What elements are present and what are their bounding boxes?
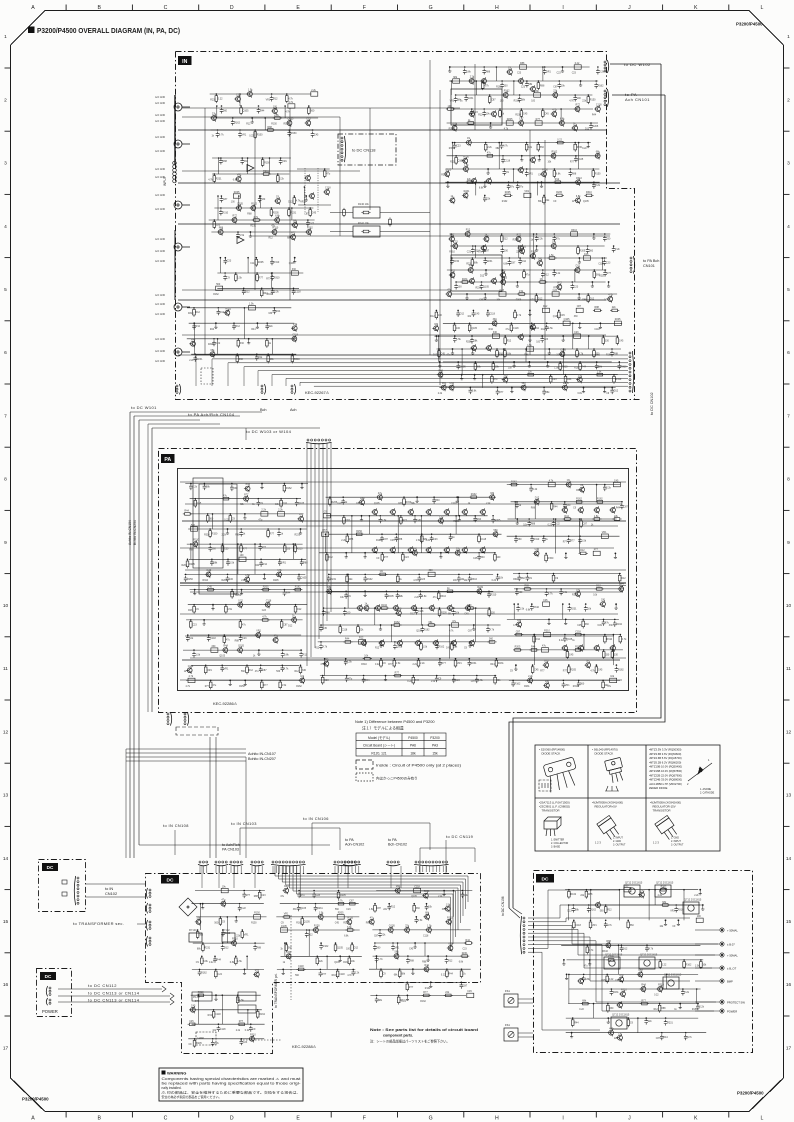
resistor — [356, 533, 362, 536]
capacitor — [297, 892, 301, 898]
resistor — [576, 351, 579, 357]
resistor — [223, 637, 226, 643]
PA block outline — [159, 449, 637, 713]
capacitor — [645, 946, 649, 952]
svg-text:0.22: 0.22 — [492, 580, 497, 582]
svg-text:6.8k: 6.8k — [576, 195, 581, 198]
svg-text:100: 100 — [458, 286, 463, 289]
transistor — [531, 325, 536, 330]
svg-text:R88: R88 — [235, 641, 240, 643]
svg-text:1 2 3: 1 2 3 — [595, 841, 601, 845]
svg-text:4.7k: 4.7k — [549, 479, 554, 482]
svg-text:R162: R162 — [323, 945, 329, 948]
resistor — [564, 376, 567, 382]
svg-text:R44: R44 — [260, 110, 265, 113]
svg-text:560: 560 — [540, 146, 545, 149]
resistor — [587, 97, 590, 103]
svg-text:330: 330 — [481, 556, 486, 559]
transistor — [412, 606, 417, 611]
transistor — [503, 377, 508, 382]
svg-text:3. BASE: 3. BASE — [551, 846, 560, 849]
svg-text:R231: R231 — [197, 358, 203, 361]
resistor — [571, 1020, 574, 1026]
svg-text:15: 15 — [786, 919, 792, 925]
svg-text:6.8k: 6.8k — [284, 654, 289, 657]
resistor — [594, 518, 600, 521]
circuitry cluster (276,884)-(362,976) — [280, 903, 359, 905]
svg-text:R162: R162 — [511, 480, 517, 483]
resistor — [471, 260, 474, 266]
svg-text:to PA: to PA — [345, 838, 354, 842]
resistor — [209, 531, 212, 537]
bundle from bottom connector to left — [196, 354, 628, 356]
svg-text:R120, 121: R120, 121 — [371, 751, 386, 755]
resistor — [663, 904, 669, 907]
svg-text:R150: R150 — [264, 162, 270, 165]
capacitor — [239, 636, 243, 642]
svg-text:R310: R310 — [513, 240, 519, 242]
transistor — [641, 987, 646, 992]
svg-text:DC: DC — [542, 877, 549, 883]
capacitor — [415, 917, 419, 923]
component box — [624, 888, 631, 892]
resistor — [496, 351, 499, 357]
svg-text:R150: R150 — [542, 169, 548, 172]
svg-text:R12: R12 — [273, 98, 278, 101]
svg-text:IN: IN — [182, 59, 187, 65]
svg-text:R44: R44 — [531, 646, 536, 649]
transistor — [306, 176, 311, 181]
resistor — [614, 518, 620, 521]
transistor — [273, 638, 278, 643]
svg-text:Q105: Q105 — [219, 656, 225, 658]
resistor — [237, 340, 240, 346]
svg-text:VR1: VR1 — [237, 174, 242, 177]
capacitor — [516, 606, 520, 612]
wire — [544, 140, 546, 360]
transistor — [394, 954, 399, 959]
transistor — [425, 914, 430, 919]
svg-text:10: 10 — [786, 603, 792, 609]
resistor — [514, 312, 517, 318]
svg-text:C87: C87 — [384, 538, 389, 541]
svg-text:C87: C87 — [623, 505, 628, 508]
resistor — [347, 929, 353, 932]
svg-text:VR1: VR1 — [281, 561, 286, 564]
transistor — [293, 223, 298, 228]
transistor — [482, 79, 487, 84]
transistor — [608, 297, 613, 302]
component box — [428, 572, 435, 576]
capacitor — [482, 248, 486, 254]
svg-text:560: 560 — [580, 682, 585, 685]
svg-text:R44: R44 — [574, 1022, 579, 1025]
svg-text:4.7k: 4.7k — [253, 216, 258, 219]
svg-text:Ach GND: Ach GND — [155, 102, 165, 105]
svg-text:12: 12 — [786, 729, 792, 735]
svg-text:47u: 47u — [510, 186, 515, 189]
svg-text:L: L — [761, 5, 764, 11]
connector — [415, 861, 417, 863]
resistor — [627, 922, 630, 928]
capacitor — [604, 922, 608, 928]
component box — [216, 286, 223, 290]
svg-text:D12: D12 — [623, 947, 628, 950]
svg-text:C45: C45 — [577, 625, 582, 627]
svg-text:R162: R162 — [295, 585, 301, 588]
capacitor — [217, 309, 221, 315]
svg-text:560: 560 — [494, 529, 499, 532]
svg-text:330: 330 — [614, 653, 619, 656]
svg-text:R310: R310 — [586, 191, 592, 194]
resistor — [403, 499, 406, 505]
svg-text:2.2k: 2.2k — [420, 662, 425, 665]
svg-text:R88: R88 — [267, 126, 272, 129]
svg-text:PA3: PA3 — [432, 744, 438, 748]
circuitry cluster (208,150)-(292,182) — [212, 157, 291, 159]
svg-text:R162: R162 — [225, 307, 231, 310]
svg-text:D12: D12 — [430, 316, 435, 318]
resistor — [283, 546, 286, 552]
connector — [261, 385, 263, 387]
svg-text:560: 560 — [223, 110, 228, 113]
svg-text:47u: 47u — [370, 916, 375, 919]
svg-text:Ach GND: Ach GND — [155, 96, 165, 99]
transistor — [619, 587, 624, 592]
resistor — [582, 621, 585, 627]
component box — [414, 888, 421, 892]
transistor — [395, 888, 400, 893]
resistor — [460, 971, 463, 977]
svg-text:C45: C45 — [335, 922, 340, 924]
svg-text:R231: R231 — [498, 662, 504, 665]
svg-text:C118: C118 — [188, 665, 194, 668]
transistor — [286, 954, 291, 959]
svg-text:R12: R12 — [654, 1009, 659, 1011]
svg-text:330: 330 — [490, 492, 495, 495]
resistor — [565, 518, 571, 521]
svg-text:Q105: Q105 — [583, 201, 589, 203]
resistor — [294, 606, 297, 612]
svg-text:G: G — [429, 5, 433, 11]
transistor — [306, 121, 311, 126]
circuitry cluster (430,304)-(626,394) — [443, 322, 622, 324]
svg-text:VR1: VR1 — [284, 913, 289, 916]
svg-text:47u: 47u — [452, 620, 457, 623]
capacitor — [253, 945, 257, 951]
svg-text:2.2k: 2.2k — [274, 290, 279, 293]
component box — [527, 347, 534, 351]
svg-text:R162: R162 — [213, 294, 219, 296]
transistor — [360, 500, 365, 505]
resistor — [454, 660, 457, 666]
capacitor — [257, 500, 261, 506]
component box — [239, 557, 246, 561]
svg-text:R205: R205 — [182, 565, 188, 567]
svg-text:R44: R44 — [223, 645, 228, 648]
svg-text:Achito IN-CN104: Achito IN-CN104 — [128, 520, 132, 545]
transistor — [595, 646, 600, 651]
svg-text:1.5k: 1.5k — [464, 164, 469, 167]
capacitor — [530, 537, 534, 543]
capacitor — [511, 681, 515, 687]
svg-text:VR1: VR1 — [396, 885, 401, 888]
svg-text:0.22: 0.22 — [209, 962, 214, 964]
resistor — [487, 155, 493, 158]
capacitor — [660, 1034, 664, 1040]
svg-text:R44: R44 — [553, 505, 558, 508]
svg-text:R12: R12 — [607, 909, 612, 912]
svg-text:POWER: POWER — [727, 1009, 737, 1013]
capacitor — [198, 970, 202, 976]
svg-text:R77: R77 — [291, 232, 296, 235]
svg-text:C23: C23 — [346, 909, 351, 911]
resistor — [558, 312, 561, 318]
svg-text:1.5k: 1.5k — [347, 661, 352, 664]
transistor — [277, 572, 282, 577]
svg-text:R162: R162 — [332, 975, 338, 977]
svg-text:to TRANSFORMER sec.: to TRANSFORMER sec. — [73, 921, 124, 926]
capacitor — [664, 1020, 668, 1026]
svg-text:330: 330 — [286, 548, 291, 551]
svg-text:C45: C45 — [569, 653, 574, 656]
svg-text:VR1: VR1 — [442, 382, 447, 385]
svg-text:1.5k: 1.5k — [230, 561, 235, 564]
resistor — [424, 994, 430, 997]
wire — [254, 130, 256, 290]
capacitor — [363, 576, 367, 582]
svg-text:R205: R205 — [338, 912, 344, 915]
resistor — [190, 622, 193, 628]
svg-text:6.8k: 6.8k — [203, 960, 208, 963]
transistor — [250, 1036, 255, 1041]
svg-text:R12: R12 — [507, 340, 512, 343]
resistor — [495, 660, 498, 666]
svg-text:2.2k: 2.2k — [192, 486, 197, 489]
svg-text:100: 100 — [240, 554, 245, 557]
capacitor — [696, 1004, 700, 1010]
transistor — [519, 79, 524, 84]
svg-text:2.2k: 2.2k — [214, 1042, 219, 1045]
resistor — [516, 633, 522, 636]
svg-text:C23: C23 — [557, 73, 562, 75]
svg-text:R88: R88 — [595, 306, 600, 309]
svg-text:47u: 47u — [526, 274, 531, 277]
transistor — [292, 618, 297, 623]
capacitor — [545, 590, 549, 596]
capacitor — [507, 184, 511, 190]
svg-text:Note : See parts list for deta: Note : See parts list for details of cir… — [370, 1028, 478, 1032]
capacitor — [463, 69, 467, 75]
svg-text:R162: R162 — [420, 1001, 426, 1003]
svg-text:K: K — [694, 5, 698, 11]
svg-text:2.2k: 2.2k — [355, 971, 360, 974]
component box — [211, 648, 218, 652]
svg-text:1.5k: 1.5k — [227, 608, 232, 611]
capacitor — [220, 197, 224, 203]
resistor — [412, 677, 415, 683]
transistor — [434, 641, 439, 646]
svg-text:1.5k: 1.5k — [245, 574, 250, 577]
svg-text:POWER: POWER — [42, 1009, 58, 1014]
svg-text:•LD4.2B5K1-TP (VR02700): •LD4.2B5K1-TP (VR02700) — [649, 782, 682, 786]
svg-text:注１）モデルによる相違: 注１）モデルによる相違 — [362, 726, 404, 731]
svg-text:100: 100 — [504, 250, 509, 253]
resistor — [309, 210, 312, 216]
svg-text:2.2k: 2.2k — [487, 146, 492, 149]
svg-text:R88: R88 — [222, 160, 227, 163]
DC power block outline — [37, 969, 72, 1017]
svg-text:R231: R231 — [236, 595, 242, 597]
svg-text:R162: R162 — [576, 498, 582, 501]
svg-text:Q105: Q105 — [298, 502, 305, 505]
connector — [149, 904, 151, 906]
svg-text:C87: C87 — [511, 262, 516, 265]
svg-text:R150: R150 — [449, 148, 455, 150]
svg-text:R150: R150 — [291, 132, 297, 135]
capacitor — [230, 485, 234, 491]
transistor — [492, 321, 497, 326]
to DC CN118 box — [338, 134, 396, 165]
svg-text:Q105: Q105 — [374, 503, 380, 505]
transistor — [618, 1035, 623, 1040]
svg-text:R12: R12 — [343, 922, 348, 924]
svg-text:D12: D12 — [246, 483, 251, 486]
capacitor — [589, 124, 593, 130]
transistor box — [604, 957, 620, 969]
op-amp — [247, 165, 254, 172]
svg-text:B: B — [98, 5, 102, 11]
svg-text:to DC CN102: to DC CN102 — [650, 392, 654, 415]
svg-text:Q105: Q105 — [483, 286, 490, 289]
resistor — [294, 546, 297, 552]
svg-text:R77: R77 — [641, 999, 646, 1002]
wire — [204, 108, 206, 355]
capacitor — [232, 324, 236, 330]
svg-text:6.8k: 6.8k — [347, 926, 352, 929]
svg-text:Model (モデル): Model (モデル) — [368, 735, 390, 740]
connector — [199, 861, 201, 863]
svg-text:VR1: VR1 — [256, 630, 261, 633]
capacitor — [217, 1026, 221, 1032]
svg-text:R77: R77 — [563, 671, 568, 673]
svg-text:1.5k: 1.5k — [527, 344, 532, 347]
svg-text:R88: R88 — [540, 85, 545, 88]
component box — [261, 512, 268, 516]
transistor — [191, 1007, 196, 1012]
svg-text:4.7k: 4.7k — [219, 134, 224, 137]
svg-text:R77: R77 — [402, 519, 407, 522]
svg-text:C23: C23 — [421, 578, 426, 581]
transistor — [484, 237, 489, 242]
svg-text:D12: D12 — [503, 238, 508, 241]
circuitry cluster (506,566)-(626,688) — [513, 573, 621, 575]
resistor — [267, 356, 270, 362]
svg-text:C23: C23 — [574, 286, 579, 289]
svg-text:R162: R162 — [286, 487, 292, 490]
resistor — [219, 919, 222, 925]
svg-text:•MTZ3.6B 3.6V (RQ63600): •MTZ3.6B 3.6V (RQ63600) — [649, 752, 681, 756]
op-amp — [237, 237, 244, 244]
svg-text:0.22: 0.22 — [609, 978, 614, 981]
capacitor — [571, 284, 575, 290]
svg-text:CN102: CN102 — [105, 891, 117, 896]
resistor — [602, 652, 605, 658]
resistor — [592, 171, 595, 177]
svg-text:PROTECT SW: PROTECT SW — [727, 1000, 745, 1004]
connector — [272, 861, 274, 863]
svg-text:R231: R231 — [462, 278, 468, 281]
resistor — [535, 296, 538, 302]
resistor — [295, 588, 301, 591]
svg-text:47u: 47u — [556, 238, 561, 241]
svg-text:C45: C45 — [312, 212, 317, 215]
transistor — [487, 346, 492, 351]
svg-text:WARNING: WARNING — [167, 1070, 186, 1075]
transistor — [576, 180, 581, 185]
svg-text:VR1: VR1 — [207, 669, 212, 672]
transistor — [638, 972, 643, 977]
svg-text:Ach GND: Ach GND — [155, 294, 165, 297]
svg-text:C23: C23 — [455, 679, 460, 682]
capacitor — [475, 677, 479, 683]
svg-text:14: 14 — [786, 856, 792, 862]
svg-text:I: I — [562, 1116, 563, 1122]
resistor — [208, 588, 214, 591]
svg-text:Ach GND: Ach GND — [155, 250, 165, 253]
svg-text:4: 4 — [4, 224, 7, 230]
transistor — [221, 901, 226, 906]
capacitor — [543, 69, 547, 75]
title block — [28, 27, 35, 34]
IN block label — [178, 56, 192, 65]
svg-text:C87: C87 — [618, 1032, 623, 1035]
capacitor — [456, 311, 460, 317]
svg-text:to Ach/Rch: to Ach/Rch — [222, 843, 240, 847]
transistor — [596, 903, 601, 908]
svg-text:1.5k: 1.5k — [446, 903, 451, 906]
svg-text:C23: C23 — [192, 623, 197, 626]
svg-text:R162: R162 — [267, 294, 273, 296]
svg-text:R12: R12 — [466, 229, 471, 232]
svg-text:R150: R150 — [356, 530, 362, 533]
nested L bundle from CN106 connector across DC mid top — [275, 866, 468, 902]
resistor — [604, 907, 607, 913]
circuitry cluster (443,60)-(602,130) — [450, 66, 589, 68]
resistor — [263, 588, 269, 591]
circuitry cluster (188,988)-(266,1046) — [191, 994, 261, 996]
svg-text:DIODE STACK: DIODE STACK — [542, 752, 561, 756]
svg-text:to DC CN106: to DC CN106 — [501, 896, 505, 916]
svg-text:R44: R44 — [255, 565, 260, 567]
svg-text:VR1: VR1 — [592, 924, 597, 927]
svg-text:R77: R77 — [441, 662, 446, 665]
svg-text:18k: 18k — [410, 751, 416, 755]
svg-text:R77: R77 — [270, 533, 275, 536]
svg-text:100: 100 — [697, 915, 702, 918]
svg-text:•MTZ16B 16.0V (RQ57800): •MTZ16B 16.0V (RQ57800) — [649, 769, 682, 773]
svg-text:H: H — [495, 5, 499, 11]
svg-text:R44: R44 — [284, 885, 289, 888]
svg-text:R44: R44 — [210, 329, 215, 331]
resistor — [338, 902, 344, 905]
svg-text:R162: R162 — [439, 645, 445, 648]
capacitor — [378, 931, 382, 937]
svg-text:R77: R77 — [233, 215, 238, 218]
capacitor — [610, 388, 614, 394]
DC right routing wires — [528, 905, 700, 918]
capacitor — [211, 1040, 215, 1046]
